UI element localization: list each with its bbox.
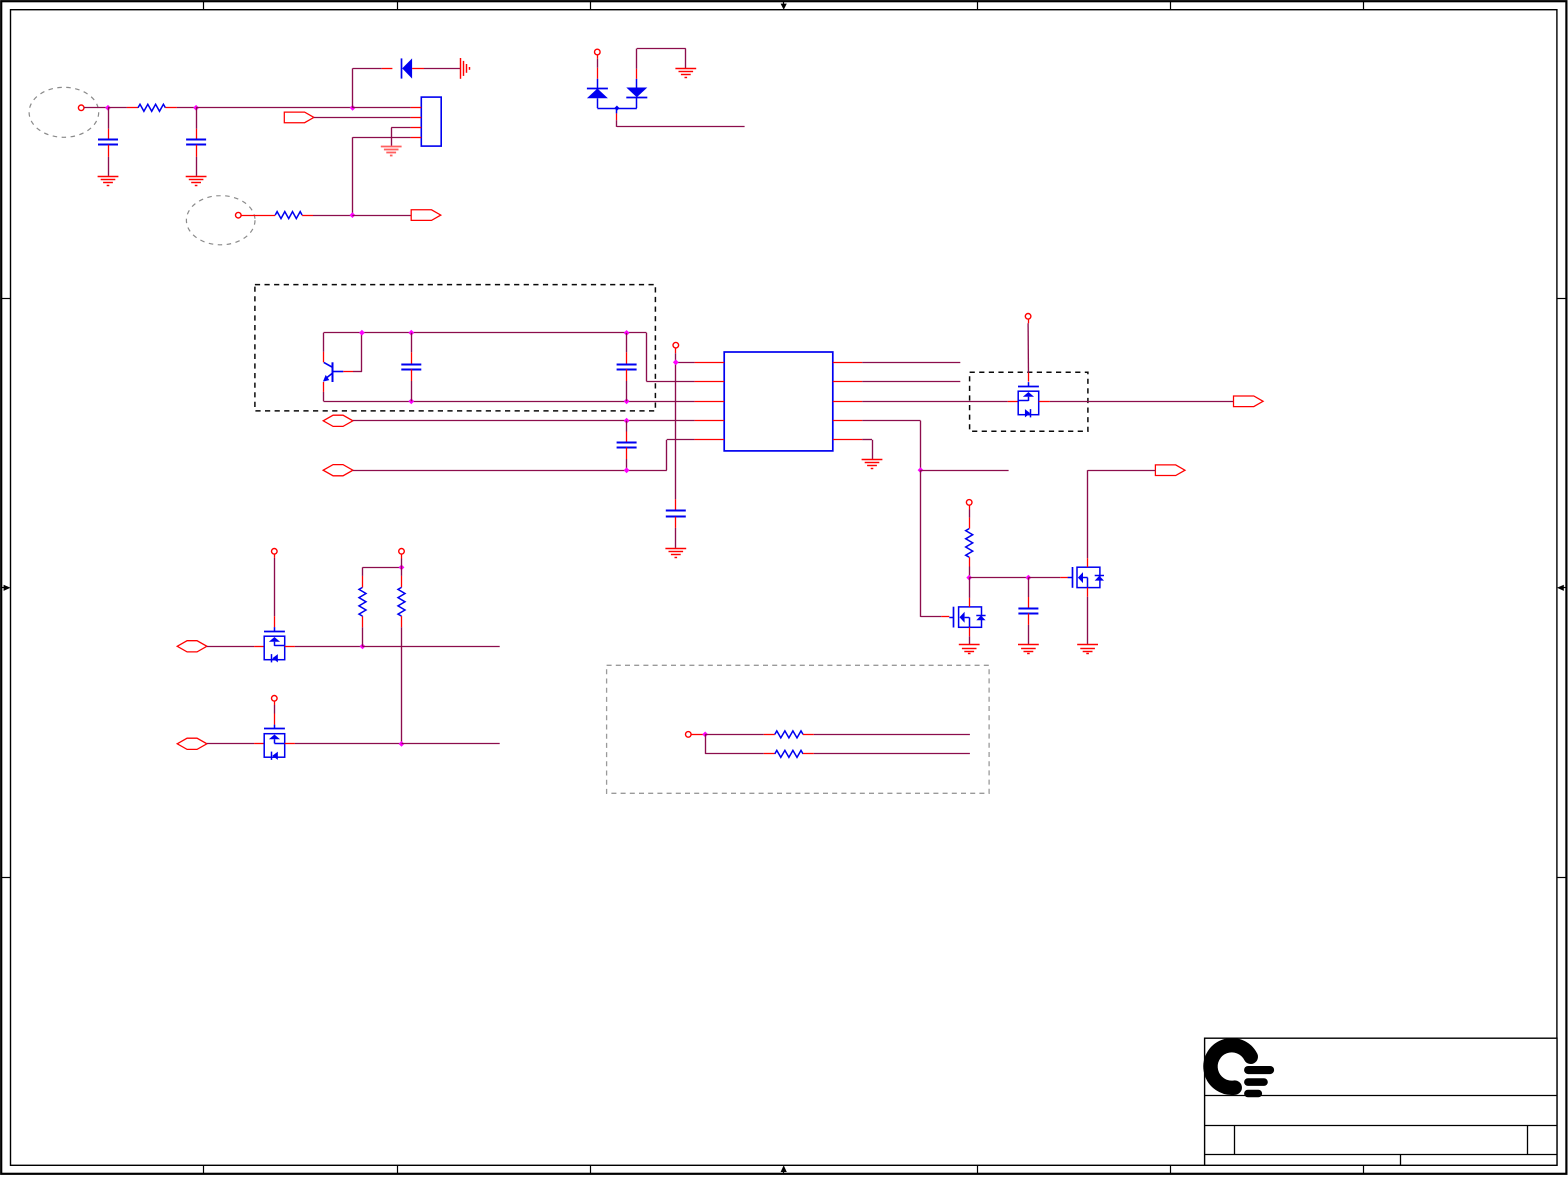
wire P5 to Q2 gate	[1027, 319, 1029, 382]
wire Q2 to flag F3	[1039, 401, 1234, 403]
ground under M1	[959, 645, 980, 654]
wire D1 to blue node	[597, 98, 636, 108]
diode D3 (ESD, cathode left)	[402, 58, 413, 78]
resistor R1	[127, 104, 177, 111]
wire node H to R6	[705, 734, 764, 736]
resistor R7	[764, 750, 814, 757]
pin P1 (antenna feed)	[78, 105, 84, 111]
wire P8 to node F	[401, 554, 403, 567]
pin P2 (antenna feed 2)	[236, 212, 242, 218]
bottom rail wire	[324, 401, 695, 403]
wire P3 to D1	[597, 55, 599, 88]
wire node D to flag F2	[352, 215, 411, 217]
wire M1 source to ground	[969, 627, 971, 644]
pin P3	[595, 49, 601, 55]
ground under C1	[98, 177, 119, 186]
wire R1 to node B	[177, 107, 196, 109]
P-MOSFET M3	[264, 725, 285, 760]
wire IC pin2R	[862, 381, 960, 383]
connector J1	[411, 97, 442, 146]
wire stub right of junction	[921, 470, 1009, 472]
junction R3/M1	[966, 575, 972, 581]
N-MOSFET Q4	[1068, 567, 1104, 588]
wire P1 to node A	[84, 107, 108, 109]
wire PD to M3	[207, 743, 264, 745]
IC U1	[695, 352, 863, 451]
wire R5 down to node G	[401, 627, 403, 744]
ground at diode pair	[675, 69, 696, 78]
hex port PC	[177, 641, 207, 652]
gray dashed box around sense resistors	[607, 665, 990, 793]
junction bottom rail / C3	[408, 398, 414, 404]
dashed box around crystal/reference section	[255, 285, 656, 411]
resistor R2	[241, 212, 313, 219]
wire from blue node to the right (stub)	[617, 108, 745, 127]
wire R4 top to node F	[363, 567, 402, 569]
resistor R6	[764, 731, 814, 738]
junction PA / C5	[624, 418, 630, 424]
wire IC pin5R to ground	[862, 440, 872, 460]
wire R6 onward	[814, 734, 970, 736]
P-MOSFET Q2	[1018, 382, 1039, 417]
capacitor C4	[617, 333, 637, 401]
wire R3 node to C7 node	[969, 577, 1028, 579]
pin P4	[673, 342, 679, 348]
resistor R4	[359, 567, 366, 646]
junction top rail / C4	[624, 330, 630, 336]
junction node H	[702, 732, 708, 738]
pin P5	[1025, 314, 1031, 320]
wire F1 to connector pin 2	[314, 117, 411, 119]
wire F4 to Q4 drain	[1088, 470, 1156, 558]
capacitor C2	[186, 108, 206, 176]
wire P9 to M3 gate	[274, 701, 276, 725]
wire Q4 source to ground	[1087, 588, 1089, 645]
wire IC pin1R	[862, 362, 960, 364]
wire node H down to R7	[705, 734, 764, 754]
wire P10 to node H	[691, 734, 705, 736]
capacitor C5	[617, 421, 637, 471]
junction top rail / Q1 base	[359, 330, 365, 336]
hex port PA	[323, 415, 353, 426]
junction node B	[193, 105, 199, 111]
blue junction node	[614, 106, 619, 111]
P-MOSFET M2	[264, 627, 285, 662]
pin P9	[272, 696, 278, 702]
dashed box around P-MOSFET switch	[970, 372, 1088, 431]
wire PC to M2	[207, 646, 264, 648]
wire R2 to node D	[313, 215, 352, 217]
net flag F2	[411, 210, 441, 221]
title block	[1205, 1038, 1557, 1165]
junction node F	[399, 565, 405, 571]
wire P7 to M2 gate	[274, 554, 276, 627]
net flag F4	[1155, 465, 1185, 476]
wire P4 down / IC pin1 branch	[676, 348, 695, 499]
N-MOSFET M1	[949, 607, 985, 628]
chassis ground symbol	[461, 58, 470, 79]
dashed module outline (ellipse) around antenna pin 2	[186, 196, 255, 245]
junction node D	[350, 212, 356, 218]
wire IC pin3R to P-MOSFET	[862, 401, 1018, 403]
diode D1 (cathode up)	[587, 89, 608, 99]
wire pin4R node down to M1 gate	[921, 470, 950, 617]
resistor R3	[966, 505, 973, 577]
wire connector pin 4 down to node D	[353, 137, 411, 215]
wire Q1 emitter to bottom rail	[323, 382, 325, 401]
capacitor C6	[666, 499, 686, 548]
dashed module outline (ellipse) around antenna pin 1	[29, 87, 99, 137]
wire Q4 drain	[1087, 558, 1089, 567]
junction P4/IC pin1	[673, 359, 679, 365]
wire D3 to chassis ground	[412, 68, 460, 70]
net flag F1	[284, 112, 314, 123]
wire node A to R1	[108, 107, 127, 109]
junction bottom rail / C4	[624, 398, 630, 404]
junction node C	[350, 105, 356, 111]
capacitor C1	[98, 108, 118, 176]
junction pin4R node	[918, 467, 924, 473]
wire node C up to D3	[353, 68, 393, 107]
wire node C to connector pin 1	[353, 107, 411, 109]
pin P10	[686, 732, 692, 738]
pin P7	[272, 549, 278, 555]
capacitor C7	[1018, 578, 1038, 645]
junction node E	[360, 644, 366, 650]
pin P8	[399, 549, 405, 555]
wire PB to IC pin 5	[353, 440, 695, 471]
ground under C2	[186, 177, 207, 186]
wire M3 to node G	[285, 743, 402, 745]
wire PA to IC pin 4	[353, 420, 695, 422]
wire Q1 collector to top rail	[323, 333, 325, 363]
resistor R5	[398, 567, 405, 627]
ground at IC pin5R	[862, 460, 883, 469]
light ground under connector	[381, 147, 402, 156]
hex port PB	[323, 465, 353, 476]
pin P6	[966, 500, 972, 506]
wire M1 drain	[969, 578, 971, 607]
wire connector pin 3 to light ground	[391, 128, 410, 146]
top rail wire	[324, 333, 695, 382]
wire IC pin4R down	[862, 421, 920, 471]
ground under Q4	[1077, 645, 1098, 654]
ground under C7	[1018, 645, 1039, 654]
junction PB / C5	[624, 467, 630, 473]
wire D2 up to ground	[637, 49, 686, 88]
capacitor C3	[401, 333, 421, 402]
junction node A	[105, 105, 111, 111]
wire Q1 base to top rail	[353, 333, 362, 372]
diode D2 (cathode down)	[626, 88, 647, 109]
ground under C6	[665, 549, 686, 558]
junction C7 node	[1026, 575, 1032, 581]
junction top rail / C3	[408, 330, 414, 336]
wire M2 to node E	[285, 646, 363, 648]
company logo	[1210, 1045, 1274, 1097]
net flag F3	[1234, 396, 1264, 407]
wire node B to node C	[196, 107, 353, 109]
wire node G onward	[402, 743, 500, 745]
wire R7 onward	[814, 753, 970, 755]
hex port PD	[177, 738, 207, 749]
wire node E onward	[363, 646, 500, 648]
transistor Q1 (diode connected PNP)	[323, 362, 353, 382]
junction node G	[399, 741, 405, 747]
wire C7 node to Q4 gate	[1028, 577, 1068, 579]
